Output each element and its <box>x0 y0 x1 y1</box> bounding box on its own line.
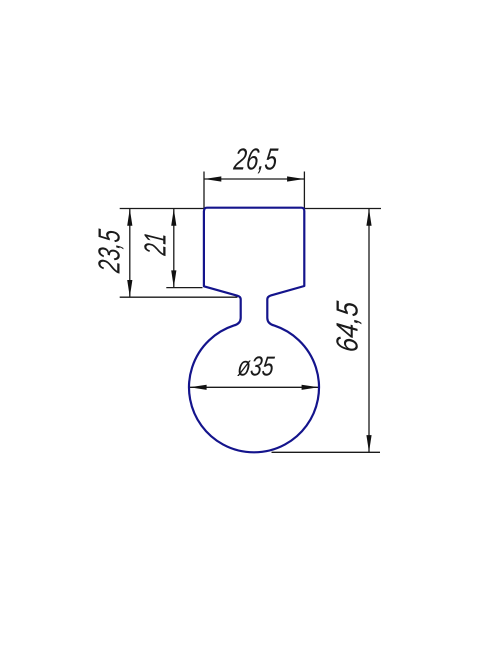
svg-text:ø35: ø35 <box>236 350 276 381</box>
svg-text:26,5: 26,5 <box>231 143 280 177</box>
svg-text:64,5: 64,5 <box>331 299 365 354</box>
svg-text:23,5: 23,5 <box>93 227 127 275</box>
svg-text:21: 21 <box>139 231 173 258</box>
